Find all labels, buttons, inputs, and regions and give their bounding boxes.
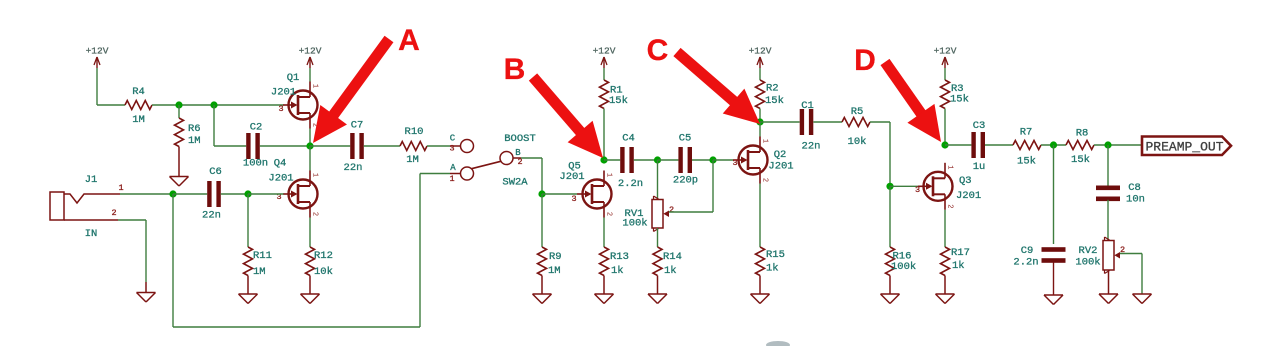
- svg-text:R14: R14: [663, 251, 682, 263]
- svg-text:C8: C8: [1128, 182, 1141, 194]
- svg-text:C4: C4: [622, 133, 635, 145]
- svg-text:J201: J201: [956, 190, 981, 202]
- switch lever SW2A: [472, 133, 536, 189]
- svg-text:1k: 1k: [664, 265, 677, 277]
- ground under R13: [595, 294, 614, 304]
- power +12V (R1): [593, 46, 616, 81]
- capacitor C7 22n: [344, 120, 364, 175]
- wire node C to C1: [760, 121, 800, 123]
- node junction J1/C6: [169, 190, 176, 197]
- svg-text:15k: 15k: [609, 95, 628, 107]
- transistor Q3 J201: [915, 163, 981, 210]
- wire junction to Q3 gate: [890, 185, 918, 187]
- svg-text:R5: R5: [851, 106, 864, 118]
- svg-text:2.2n: 2.2n: [618, 178, 643, 190]
- wire +12V to R4: [97, 104, 125, 106]
- capacitor C2 100n: [243, 122, 268, 170]
- wire Q2 source to R15: [759, 184, 761, 248]
- node junction R7/R8/C9: [1050, 141, 1057, 148]
- svg-text:+12V: +12V: [749, 46, 772, 57]
- artifact smudge: [766, 341, 790, 349]
- wire junction to Q2 gate: [713, 159, 733, 161]
- annotation arrow D: [854, 44, 941, 142]
- wire J1 pin1 to junction: [120, 193, 173, 195]
- annotation arrow B: [504, 53, 603, 158]
- wire Q3 source to R17: [944, 210, 946, 247]
- svg-text:J201: J201: [268, 173, 293, 185]
- capacitor C5 220p: [673, 133, 698, 187]
- resistor R16 100k: [886, 186, 917, 294]
- svg-text:2: 2: [311, 212, 319, 216]
- ground under R17: [936, 294, 955, 304]
- svg-text:22n: 22n: [344, 162, 363, 174]
- wire C5 to junction: [692, 159, 713, 161]
- svg-text:1M: 1M: [188, 135, 201, 147]
- svg-text:R12: R12: [314, 250, 333, 262]
- svg-text:B: B: [504, 53, 526, 86]
- svg-text:C: C: [647, 34, 669, 67]
- wire R7 to R8: [1041, 144, 1066, 146]
- svg-text:1u: 1u: [973, 161, 986, 173]
- svg-text:R11: R11: [253, 250, 272, 262]
- resistor R9 1M: [538, 194, 562, 294]
- switch contact C: [449, 134, 473, 154]
- svg-text:3: 3: [449, 144, 454, 154]
- node junction C5/wiper/Q2 gate: [709, 156, 716, 163]
- switch contact B: [500, 148, 523, 167]
- ground under R6: [170, 177, 189, 187]
- svg-text:1k: 1k: [952, 260, 965, 272]
- wire node B to C4: [604, 159, 620, 161]
- svg-text:1M: 1M: [406, 154, 419, 166]
- svg-text:3: 3: [915, 185, 920, 195]
- svg-text:1M: 1M: [548, 265, 561, 277]
- svg-text:+12V: +12V: [934, 46, 957, 57]
- svg-text:3: 3: [278, 104, 283, 114]
- svg-text:R7: R7: [1020, 127, 1033, 139]
- potentiometer RV1 100k: [622, 160, 674, 247]
- svg-text:1M: 1M: [132, 114, 145, 126]
- ground under R14: [648, 294, 667, 304]
- resistor R7 15k: [1013, 127, 1041, 168]
- svg-text:D: D: [854, 44, 876, 77]
- transistor Q4 J201: [268, 158, 318, 218]
- wire R8 to output flag: [1094, 144, 1142, 146]
- ground under R16: [881, 294, 900, 304]
- resistor R14 1k: [653, 247, 682, 294]
- svg-text:10k: 10k: [848, 136, 867, 148]
- svg-text:J201: J201: [271, 87, 296, 99]
- svg-text:2: 2: [669, 205, 674, 215]
- wire C7 to R10: [364, 145, 400, 147]
- capacitor C8 10n: [1096, 145, 1145, 241]
- node A junction: [306, 142, 313, 149]
- svg-text:C5: C5: [679, 133, 692, 145]
- svg-text:R10: R10: [405, 126, 424, 138]
- svg-text:C1: C1: [801, 100, 814, 112]
- svg-text:15k: 15k: [950, 94, 969, 106]
- resistor R2 15k: [756, 80, 784, 122]
- svg-text:R8: R8: [1076, 128, 1089, 140]
- wire node C to Q2 drain: [759, 122, 761, 137]
- resistor R5 10k: [842, 106, 870, 148]
- svg-text:15k: 15k: [1071, 154, 1090, 166]
- wire switch B to Q5 gate node: [521, 158, 542, 194]
- power +12V (R3): [934, 46, 957, 81]
- ground under RV2: [1099, 294, 1118, 304]
- wire J1 pin2 to ground: [118, 220, 146, 293]
- ground under R15: [751, 294, 770, 304]
- svg-text:C7: C7: [351, 120, 364, 132]
- potentiometer RV2 100k: [1075, 237, 1125, 294]
- svg-text:C: C: [450, 134, 456, 144]
- svg-text:SW2A: SW2A: [502, 177, 528, 189]
- resistor R13 1k: [600, 247, 629, 294]
- node C junction: [756, 118, 763, 125]
- node junction gate/C2 drop: [210, 101, 217, 108]
- svg-text:100n: 100n: [243, 158, 268, 170]
- svg-text:1: 1: [761, 139, 769, 143]
- svg-text:1: 1: [449, 174, 454, 184]
- svg-text:15k: 15k: [1017, 156, 1036, 168]
- svg-text:R9: R9: [549, 251, 562, 263]
- svg-text:15k: 15k: [765, 95, 784, 107]
- transistor Q2 J201: [732, 137, 793, 184]
- svg-text:A: A: [398, 24, 420, 57]
- svg-text:PREAMP_OUT: PREAMP_OUT: [1145, 140, 1223, 155]
- wire RV2 wiper to ground: [1120, 254, 1142, 295]
- wire Q5 source to R13: [603, 218, 605, 248]
- capacitor C6 22n: [202, 166, 222, 222]
- wire Q4 source to R12: [309, 218, 311, 248]
- svg-text:R4: R4: [132, 86, 145, 98]
- svg-text:100k: 100k: [622, 218, 647, 230]
- svg-text:22n: 22n: [802, 141, 821, 153]
- resistor R8 15k: [1066, 128, 1094, 167]
- svg-text:A: A: [450, 163, 456, 173]
- wire R5 to Q3 gate node: [870, 122, 890, 186]
- svg-text:220p: 220p: [673, 175, 698, 187]
- svg-text:R6: R6: [188, 123, 201, 135]
- svg-text:C6: C6: [209, 166, 222, 178]
- transistor Q5 J201: [559, 161, 612, 218]
- node junction C4/C5/RV1: [654, 156, 661, 163]
- svg-text:2.2n: 2.2n: [1013, 257, 1038, 269]
- svg-text:RV2: RV2: [1079, 245, 1098, 257]
- svg-text:R15: R15: [766, 249, 785, 261]
- wire R4 to Q1 gate: [152, 104, 284, 106]
- power +12V (Q1 drain): [299, 46, 322, 82]
- svg-text:BOOST: BOOST: [504, 133, 536, 145]
- svg-text:10k: 10k: [314, 266, 333, 278]
- svg-text:2: 2: [605, 212, 613, 216]
- resistor R15 1k: [756, 247, 785, 294]
- svg-text:2: 2: [111, 208, 116, 218]
- resistor R11 1M: [244, 194, 272, 294]
- svg-text:1: 1: [311, 84, 319, 88]
- wire junction to C5: [658, 159, 679, 161]
- ground under R11: [239, 294, 258, 304]
- capacitor C4 2.2n: [618, 133, 643, 191]
- resistor R6 1M: [175, 105, 201, 176]
- svg-text:J201: J201: [559, 171, 584, 183]
- ground under R9: [533, 294, 552, 304]
- resistor R3 15k: [941, 80, 969, 145]
- wire C4 to junction: [634, 159, 658, 161]
- wire junction down to C2: [214, 105, 246, 146]
- svg-text:1: 1: [118, 183, 123, 193]
- wire junction to C6: [173, 193, 207, 195]
- power +12V (stage 1 bias): [86, 46, 109, 106]
- svg-text:+12V: +12V: [299, 46, 322, 57]
- wire junction to Q5 gate: [542, 193, 577, 195]
- svg-text:C3: C3: [973, 120, 986, 132]
- svg-text:1: 1: [311, 173, 319, 177]
- switch contact A: [449, 163, 473, 184]
- wire junction to Q4 gate: [248, 193, 284, 195]
- svg-text:10n: 10n: [1126, 194, 1145, 206]
- ground under R12: [301, 294, 320, 304]
- connector J1 jack: [50, 174, 124, 240]
- capacitor C9 2.2n: [1013, 145, 1065, 295]
- annotation arrow A: [313, 24, 420, 143]
- ground under C9: [1044, 295, 1063, 305]
- resistor R10 1M: [400, 126, 427, 166]
- node junction R4/R6: [175, 101, 182, 108]
- wire C2 to node A: [260, 145, 310, 147]
- svg-text:R2: R2: [766, 83, 779, 95]
- ground under RV2 wiper: [1133, 294, 1152, 304]
- svg-text:+12V: +12V: [593, 46, 616, 57]
- svg-text:3: 3: [732, 158, 737, 168]
- svg-text:+12V: +12V: [86, 46, 109, 57]
- annotation arrow C: [647, 34, 760, 124]
- svg-text:1: 1: [605, 173, 613, 177]
- svg-text:1k: 1k: [766, 263, 779, 275]
- wire node A to Q4 drain: [309, 146, 311, 171]
- node D junction: [941, 141, 948, 148]
- wire node D to C3: [945, 144, 971, 146]
- node junction switch/R9/Q5 gate: [538, 190, 545, 197]
- label PREAMP_OUT: [1142, 137, 1231, 156]
- svg-text:R13: R13: [610, 251, 629, 263]
- svg-text:2: 2: [946, 204, 954, 208]
- resistor R1 15k: [600, 80, 628, 160]
- svg-text:100k: 100k: [1075, 257, 1100, 269]
- wire C3 to R7: [985, 144, 1013, 146]
- capacitor C1 22n: [800, 100, 821, 153]
- transistor Q1 J201: [271, 72, 319, 129]
- node B junction: [600, 156, 607, 163]
- node junction R5/R16/Q3 gate: [886, 183, 893, 190]
- wire Q1 source to node A: [309, 129, 311, 147]
- svg-text:C9: C9: [1021, 245, 1034, 257]
- resistor R17 1k: [941, 247, 970, 294]
- wire RV1 wiper to junction: [669, 160, 713, 212]
- capacitor C3 1u: [971, 120, 985, 173]
- resistor R12 10k: [306, 247, 333, 294]
- wire C6 to junction: [221, 193, 248, 195]
- svg-text:1: 1: [946, 165, 954, 169]
- svg-text:Q4: Q4: [274, 158, 287, 170]
- wire C1 to R5: [813, 121, 842, 123]
- svg-text:J1: J1: [85, 174, 98, 186]
- power +12V (R2): [749, 46, 772, 81]
- wire R10 to switch C: [427, 145, 450, 147]
- svg-text:22n: 22n: [202, 210, 221, 222]
- svg-text:Q3: Q3: [959, 175, 972, 187]
- svg-text:Q1: Q1: [287, 72, 300, 84]
- wire node A to C7: [310, 145, 350, 147]
- svg-text:IN: IN: [85, 228, 98, 240]
- svg-text:J201: J201: [768, 161, 793, 173]
- svg-text:1k: 1k: [611, 265, 624, 277]
- resistor R4 1M: [125, 86, 152, 126]
- wire feedback bottom run: [173, 174, 450, 328]
- node junction R8/C8: [1104, 141, 1111, 148]
- svg-text:C2: C2: [250, 122, 263, 134]
- node junction C6/R11: [244, 190, 251, 197]
- svg-text:Q2: Q2: [774, 149, 787, 161]
- ground under J1 pin2: [137, 293, 156, 303]
- svg-text:2: 2: [761, 178, 769, 182]
- svg-text:1M: 1M: [253, 266, 266, 278]
- svg-text:100k: 100k: [891, 261, 916, 273]
- svg-text:R17: R17: [951, 247, 970, 259]
- svg-text:3: 3: [571, 194, 576, 204]
